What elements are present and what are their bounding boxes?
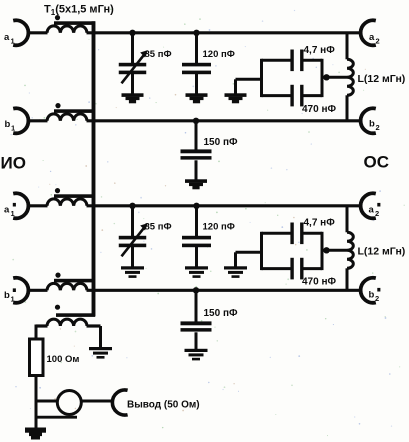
- svg-text:a: a: [4, 205, 10, 216]
- svg-text:85 пФ: 85 пФ: [145, 49, 172, 60]
- svg-text:1: 1: [11, 123, 15, 132]
- svg-text:4,7 нФ: 4,7 нФ: [304, 218, 336, 229]
- svg-text:T1(5x1,5 мГн): T1(5x1,5 мГн): [44, 4, 114, 18]
- svg-text:L(12 мГн): L(12 мГн): [358, 246, 406, 258]
- svg-text:100 Ом: 100 Ом: [47, 354, 80, 365]
- svg-text:150 пФ: 150 пФ: [204, 308, 239, 319]
- svg-text:4,7 нФ: 4,7 нФ: [304, 45, 336, 56]
- svg-text:2: 2: [375, 209, 379, 218]
- svg-text:b: b: [5, 119, 11, 130]
- svg-text:120 пФ: 120 пФ: [203, 49, 235, 60]
- svg-text:a: a: [4, 32, 10, 43]
- svg-text:150 пФ: 150 пФ: [204, 137, 239, 148]
- svg-text:1: 1: [11, 209, 15, 218]
- svg-text:2: 2: [376, 123, 380, 132]
- svg-text:470 нФ: 470 нФ: [302, 104, 337, 115]
- svg-text:b: b: [369, 290, 375, 301]
- svg-text:a: a: [369, 32, 375, 43]
- svg-text:1: 1: [11, 36, 15, 45]
- svg-text:85 пФ: 85 пФ: [145, 222, 172, 233]
- svg-text:Вывод (50 Ом): Вывод (50 Ом): [127, 400, 200, 411]
- svg-text:1: 1: [11, 294, 15, 303]
- svg-text:L(12 мГн): L(12 мГн): [358, 73, 406, 85]
- svg-text:470 нФ: 470 нФ: [302, 277, 337, 288]
- svg-text:ОС: ОС: [364, 153, 390, 172]
- svg-text:b: b: [369, 119, 375, 130]
- svg-text:2: 2: [376, 36, 380, 45]
- svg-text:a: a: [369, 205, 375, 216]
- svg-text:2: 2: [375, 294, 379, 303]
- svg-text:b: b: [4, 290, 10, 301]
- svg-text:120 пФ: 120 пФ: [203, 222, 235, 233]
- svg-text:ИО: ИО: [1, 154, 26, 173]
